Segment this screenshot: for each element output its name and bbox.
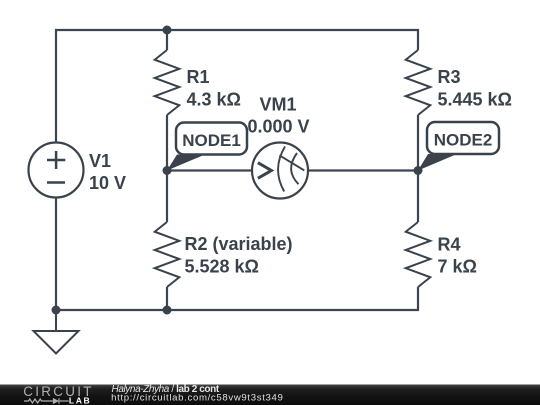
wire voltmeter left [167, 169, 252, 171]
junction dot NODE2 [414, 166, 423, 175]
resistor R4 [406, 222, 431, 287]
svg-text:VM1: VM1 [260, 94, 297, 114]
resistor R3 [406, 50, 431, 115]
junction dot R2 bottom [163, 306, 172, 315]
wire R4 top stub [417, 171, 419, 223]
svg-text:NODE1: NODE1 [182, 131, 241, 150]
resistor R2 [155, 222, 180, 287]
svg-text:0.000 V: 0.000 V [248, 116, 310, 136]
ground [34, 310, 79, 354]
svg-text:R3: R3 [438, 67, 461, 87]
svg-text:5.445 kΩ: 5.445 kΩ [438, 89, 513, 109]
svg-text:LAB: LAB [69, 395, 91, 405]
svg-text:R2 (variable): R2 (variable) [185, 234, 293, 254]
voltmeter VM1 [252, 143, 308, 199]
junction dot top R1 [163, 26, 172, 35]
node NODE1 callout [167, 123, 247, 171]
svg-text:NODE2: NODE2 [434, 131, 493, 150]
wire R1 top stub [166, 30, 168, 50]
wire R1 bottom stub [166, 115, 168, 171]
svg-text:V1: V1 [89, 151, 111, 171]
wire bottom horizontal [56, 198, 418, 310]
voltage source V1 [29, 143, 84, 198]
resistor R1 [155, 50, 180, 115]
junction dot ground [52, 306, 61, 315]
svg-text:R4: R4 [438, 235, 461, 255]
svg-text:10 V: 10 V [89, 173, 126, 193]
wire R3 bottom stub [417, 115, 419, 171]
svg-text:7 kΩ: 7 kΩ [438, 257, 477, 277]
wire top horizontal [56, 30, 418, 142]
svg-text:http://circuitlab.com/c58vw9t3: http://circuitlab.com/c58vw9t3st349 [111, 393, 283, 404]
node NODE2 callout [418, 122, 499, 171]
footer bar [0, 385, 540, 405]
svg-text:5.528 kΩ: 5.528 kΩ [185, 257, 260, 277]
junction dot NODE1 [163, 166, 172, 175]
wire R2 top stub [166, 171, 168, 223]
footer logo glyph [24, 398, 69, 403]
wire R2 bottom stub [166, 287, 168, 310]
svg-text:4.3 kΩ: 4.3 kΩ [187, 89, 241, 109]
svg-text:R1: R1 [187, 67, 210, 87]
wire voltmeter right [308, 169, 418, 171]
